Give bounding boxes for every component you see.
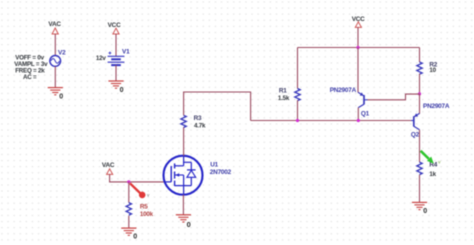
junction gate node (127, 180, 130, 183)
svg-text:1k: 1k (429, 171, 436, 178)
wire feedback bus (R3/R1/Q1 collector/Q2 base) (251, 120, 414, 122)
ground 0 under V1 (108, 81, 123, 88)
svg-text:U1: U1 (210, 162, 218, 169)
resistor R4 (417, 162, 422, 175)
svg-text:PN2907A: PN2907A (423, 103, 450, 110)
svg-text:10: 10 (429, 67, 436, 74)
svg-text:2N7002: 2N7002 (210, 169, 232, 176)
wire U1 source to ground (182, 195, 184, 215)
wire V1 minus to ground (115, 65, 117, 81)
wire Q1 base to R2 bottom node (368, 94, 420, 100)
source V2 (VSIN) (50, 56, 61, 67)
svg-text:0: 0 (187, 220, 191, 229)
junction R2 / Q1 base / Q2 emitter (418, 92, 421, 95)
wire R3 top, over and down to feedback bus (184, 92, 251, 121)
svg-text:V1: V1 (122, 48, 130, 55)
current probe marker (green arrow) on R4 (421, 151, 441, 165)
wire Q2 collector to R4 (419, 130, 421, 162)
wire R2 node down to Q2 emitter (419, 94, 421, 114)
ground 0 under R5 (121, 228, 136, 235)
wire VAC flag down then right to gate of U1 (110, 174, 165, 182)
wire R5 to ground (128, 216, 130, 228)
power flag VAC (input to gate network) (102, 162, 115, 174)
wire R4 to ground (419, 175, 421, 203)
power flag VCC (over V1) (108, 22, 121, 34)
resistor R5 (126, 203, 131, 216)
ground 0 under V2 (48, 88, 63, 95)
wire VCC rail to R1 (297, 48, 299, 89)
wire VCC rail horizontal (298, 47, 420, 49)
wire VCC flag to V1 plus (115, 34, 117, 56)
svg-text:0: 0 (59, 93, 63, 100)
svg-text:0: 0 (133, 233, 137, 240)
svg-text:AC =: AC = (23, 74, 37, 81)
wire VCC to Q1 emitter (357, 48, 359, 93)
svg-text:VCC: VCC (108, 22, 121, 29)
dc source V1 (battery) (108, 52, 125, 66)
svg-text:0: 0 (423, 208, 427, 215)
svg-text:R5: R5 (140, 203, 148, 210)
svg-text:VAC: VAC (48, 21, 61, 28)
wire VCC flag down to rail (357, 27, 359, 47)
svg-text:1.5k: 1.5k (278, 95, 290, 102)
svg-text:R4: R4 (429, 162, 437, 169)
svg-text:PN2907A: PN2907A (330, 87, 357, 94)
svg-text:R3: R3 (194, 115, 202, 122)
voltage probe marker (red) at gate node (130, 183, 150, 198)
svg-text:Q1: Q1 (361, 110, 370, 117)
pnp transistor Q2 (PN2907A) (411, 113, 420, 130)
wire R1 bottom to bus (297, 100, 299, 120)
junction Q1 collector / bus (357, 119, 360, 122)
power flag VCC (top right) (352, 16, 365, 27)
resistor R1 (295, 89, 300, 101)
wire gate node to R5 (128, 182, 130, 203)
wire Q1 collector to bus (357, 108, 359, 121)
wire VCC rail to R2 (419, 48, 421, 63)
wire R2 bottom to Q2 emitter node (419, 74, 421, 94)
wire VAC port to V2 plus (54, 34, 56, 56)
junction VCC rail / Q1 emitter (356, 46, 359, 49)
wire V2 minus to ground (54, 66, 56, 87)
svg-text:Q2: Q2 (411, 131, 420, 138)
pnp transistor Q1 (PN2907A) (358, 92, 368, 107)
resistor R2 (417, 62, 422, 74)
svg-text:4.7k: 4.7k (194, 122, 206, 129)
value labels V2: VOFF/VAMPL/FREQ/AC (14, 55, 48, 81)
ground 0 under U1 (176, 215, 191, 222)
ground 0 under R4 (412, 202, 427, 209)
resistor R3 (181, 115, 186, 127)
svg-text:V2: V2 (58, 50, 66, 57)
junction R1/bus (296, 119, 299, 122)
svg-text:12v: 12v (96, 55, 106, 62)
svg-text:VAC: VAC (102, 162, 115, 169)
svg-text:R1: R1 (279, 88, 287, 95)
wire U1 drain to R3 (183, 127, 185, 156)
nmos U1 2N7002 (164, 156, 203, 195)
power flag VAC (source port, top-left) (48, 21, 61, 34)
svg-text:100k: 100k (140, 211, 154, 218)
svg-text:0: 0 (120, 87, 124, 94)
